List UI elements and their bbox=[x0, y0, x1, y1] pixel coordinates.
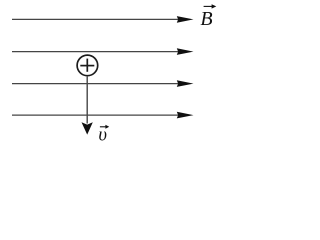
svg-text:B: B bbox=[200, 8, 212, 30]
